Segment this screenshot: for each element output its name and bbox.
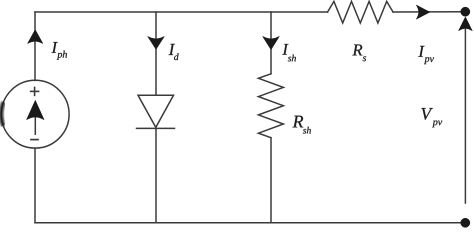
wire top left segment (35, 11, 328, 13)
label Iph (52, 42, 67, 60)
label Vpv (421, 108, 442, 127)
label Rs (352, 45, 366, 62)
label Rsh (293, 116, 311, 134)
current source circle (1, 80, 69, 148)
diode D1 cathode bar (137, 127, 175, 129)
diode D1 triangle (138, 95, 174, 127)
wire top right segment (393, 11, 464, 13)
voltage arrow line Vpv (464, 29, 466, 203)
wire left vertical upper (34, 12, 36, 80)
wire diode branch lower (155, 128, 157, 222)
wire shunt branch upper (270, 12, 272, 74)
arrowhead Id down (148, 36, 165, 49)
current source arrow shaft (34, 116, 36, 134)
resistor Rs zigzag (328, 1, 393, 23)
minus sign (31, 139, 38, 141)
arrowhead Ish down (263, 36, 280, 49)
node dot top right (461, 7, 470, 16)
wire bottom (35, 222, 464, 224)
current source arrowhead (27, 100, 45, 119)
label Ish (282, 44, 296, 61)
label Id (169, 44, 179, 60)
plus sign (31, 90, 39, 92)
resistor Rsh zigzag (258, 74, 283, 138)
wire shunt branch lower (270, 138, 272, 223)
arrowhead Vpv up (459, 17, 473, 31)
arrowhead Iph up (28, 30, 43, 44)
wire diode branch upper (155, 12, 157, 95)
wire left vertical lower (34, 148, 36, 223)
node dot bottom right (461, 218, 470, 227)
label Ipv (418, 46, 434, 64)
smudge artifact left edge of circle (1, 102, 3, 126)
arrowhead Ipv right (416, 5, 430, 19)
